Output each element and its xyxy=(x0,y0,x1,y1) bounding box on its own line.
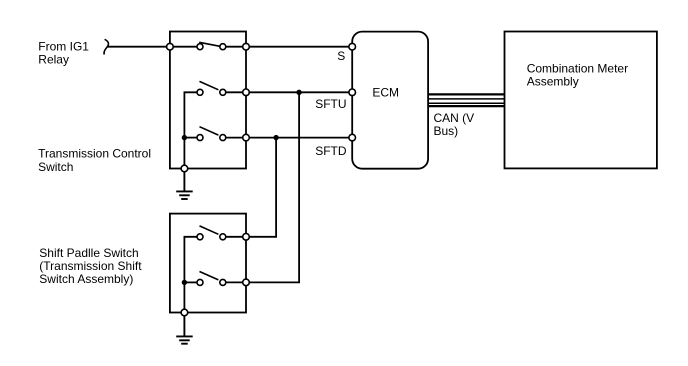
svg-text:(Transmission Shift: (Transmission Shift xyxy=(39,259,142,273)
svg-text:Bus): Bus) xyxy=(434,124,459,138)
svg-text:S: S xyxy=(337,49,345,63)
terminal: transmission box bottom (ground) xyxy=(181,165,188,172)
wire: S row switch to right edge xyxy=(223,46,246,48)
junction: SFTU net tap xyxy=(296,90,301,95)
svg-text:Relay: Relay xyxy=(38,53,69,67)
svg-text:Assembly: Assembly xyxy=(527,74,579,88)
switch: shift paddle down contact xyxy=(197,272,226,286)
wire: SFTD net (box to ECM pin SFTD) xyxy=(246,137,352,139)
wire: paddle lower left stub xyxy=(184,281,200,283)
CAN bus (4 parallel lines ECM to combination meter) xyxy=(428,94,504,106)
wire: SFTU switch to right edge xyxy=(223,91,246,93)
svg-text:From IG1: From IG1 xyxy=(38,40,89,54)
terminal: transmission box right SFTD xyxy=(243,134,250,141)
label: Transmission Control Switch xyxy=(38,147,151,174)
wire: IG1 feed to transmission control switch box xyxy=(107,46,169,48)
svg-text:SFTD: SFTD xyxy=(315,144,347,158)
pin S of ECM xyxy=(349,43,356,50)
label: CAN (V Bus) xyxy=(434,111,475,138)
terminal: transmission box left (IG1 in) xyxy=(167,43,174,50)
switch: transmission control SFTD contact xyxy=(197,127,226,141)
junction: paddle bus tap xyxy=(182,280,187,285)
wire: paddle lower to SFTU net xyxy=(246,92,299,282)
junction: SFTD bus tap in transmission box xyxy=(182,135,187,140)
switch: transmission control SFTU contact xyxy=(197,81,226,95)
wire: SFTU net (box to ECM pin SFTU) xyxy=(246,91,352,93)
wire break symbol (line continues from IG1 relay) xyxy=(104,39,108,54)
svg-text:CAN (V: CAN (V xyxy=(434,111,475,125)
svg-text:Shift Padlle Switch: Shift Padlle Switch xyxy=(39,246,138,260)
switch: transmission control S contact xyxy=(197,42,226,49)
shift paddle switch box outline xyxy=(170,214,246,313)
terminal: transmission box right SFTU xyxy=(243,89,250,96)
wire: paddle lower switch to right edge xyxy=(223,281,246,283)
terminal: paddle box bottom (ground) xyxy=(181,309,188,316)
svg-text:ECM: ECM xyxy=(372,86,399,100)
transmission control switch box outline xyxy=(170,32,246,169)
wire: SFTU left stub and inner vertical bus in transmission box xyxy=(184,92,200,168)
terminal: paddle box right upper xyxy=(243,234,250,241)
terminal: transmission box right S xyxy=(243,43,250,50)
wire: SFTD switch to right edge xyxy=(223,137,246,139)
svg-text:Combination Meter: Combination Meter xyxy=(527,61,628,75)
wire: SFTD left stub xyxy=(184,137,200,139)
wire: S net (box to ECM pin S) xyxy=(246,46,352,48)
terminal: paddle box right lower xyxy=(243,279,250,286)
label: Shift Padlle Switch (Transmission Shift Switch Assembly) xyxy=(39,246,142,286)
pin SFTU of ECM xyxy=(349,89,356,96)
wire: paddle upper switch to right edge xyxy=(223,236,246,238)
svg-text:Switch Assembly): Switch Assembly) xyxy=(39,272,133,286)
label: From IG1 Relay xyxy=(38,40,89,67)
combination meter assembly box xyxy=(505,32,657,169)
junction: SFTD net tap xyxy=(273,135,278,140)
ground: shift paddle switch xyxy=(176,316,193,344)
svg-text:Transmission Control: Transmission Control xyxy=(38,147,151,161)
wire: S row inside box (left edge to switch) xyxy=(170,46,200,48)
svg-text:Switch: Switch xyxy=(38,160,73,174)
ECM U1 box xyxy=(352,32,428,169)
ground: transmission control switch xyxy=(176,172,193,199)
wire: paddle upper to SFTD net xyxy=(246,138,276,237)
svg-text:SFTU: SFTU xyxy=(315,97,346,111)
wire: paddle upper left stub and inner vertical bus xyxy=(184,237,200,313)
label: Combination Meter Assembly xyxy=(527,61,628,88)
pin SFTD of ECM xyxy=(349,134,356,141)
switch: shift paddle up contact xyxy=(197,226,226,240)
